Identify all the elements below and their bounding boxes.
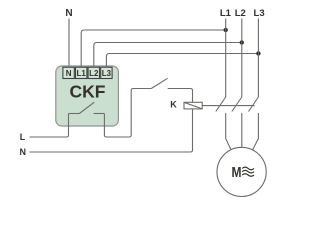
motor M body (217, 147, 266, 196)
svg-text:L1: L1 (220, 8, 232, 19)
svg-text:L: L (20, 132, 26, 142)
contactor K pole 2 blade (232, 97, 242, 112)
wire CKF terminal L2 to phase L2 (94, 43, 242, 68)
wire pole 2 to motor (241, 113, 243, 147)
wire pole 1 to motor (226, 113, 231, 150)
CKF internal contact left segment (69, 113, 80, 115)
wire N supply down to CKF terminal N (68, 19, 70, 69)
wire phase L1 vertical (225, 19, 227, 98)
svg-text:M: M (232, 164, 242, 181)
svg-text:N: N (20, 147, 27, 157)
junction dot on L3 (256, 51, 260, 55)
motor triple tilde wave 3 (242, 174, 254, 177)
wire CKF contact right stub to riser and to switch (104, 89, 151, 138)
coil K (184, 102, 202, 109)
contactor K pole 1 blade (216, 97, 226, 112)
motor triple tilde wave 2 (242, 170, 254, 173)
svg-text:L3: L3 (254, 8, 265, 19)
svg-text:L2: L2 (89, 69, 99, 78)
wire phase L2 vertical (241, 19, 243, 98)
junction dot on L2 (240, 40, 244, 44)
svg-text:N: N (66, 69, 72, 78)
wire switch to coil K top (168, 89, 193, 103)
coil K diagonal (184, 102, 202, 109)
svg-text:L1: L1 (77, 69, 87, 78)
relay CKF body (56, 66, 119, 126)
wire CKF terminal L1 to phase L1 (81, 30, 226, 67)
svg-text:L2: L2 (235, 8, 246, 19)
junction dot on L1 (224, 28, 228, 32)
svg-text:CKF: CKF (70, 82, 106, 102)
svg-text:N: N (65, 8, 72, 19)
wire L to CKF internal contact left stub (30, 114, 69, 138)
svg-text:K: K (170, 100, 177, 110)
wire pole 3 to motor (253, 113, 259, 150)
linkage line from coil K to contact blades (202, 105, 254, 107)
terminal L1 of CKF (76, 67, 87, 78)
svg-text:L3: L3 (102, 69, 112, 78)
terminal L3 of CKF (101, 67, 112, 78)
terminal N of CKF (63, 67, 74, 78)
contactor K pole 3 blade (249, 97, 259, 112)
switch blade K control (151, 78, 167, 88)
wire CKF terminal L3 to phase L3 (106, 54, 258, 68)
wire phase L3 vertical (257, 19, 259, 98)
motor triple tilde wave 1 (242, 167, 254, 170)
terminal L2 of CKF (88, 67, 99, 78)
CKF internal contact right segment (94, 113, 105, 115)
wire coil K bottom to N (30, 109, 193, 152)
CKF internal contact blade (79, 102, 94, 113)
